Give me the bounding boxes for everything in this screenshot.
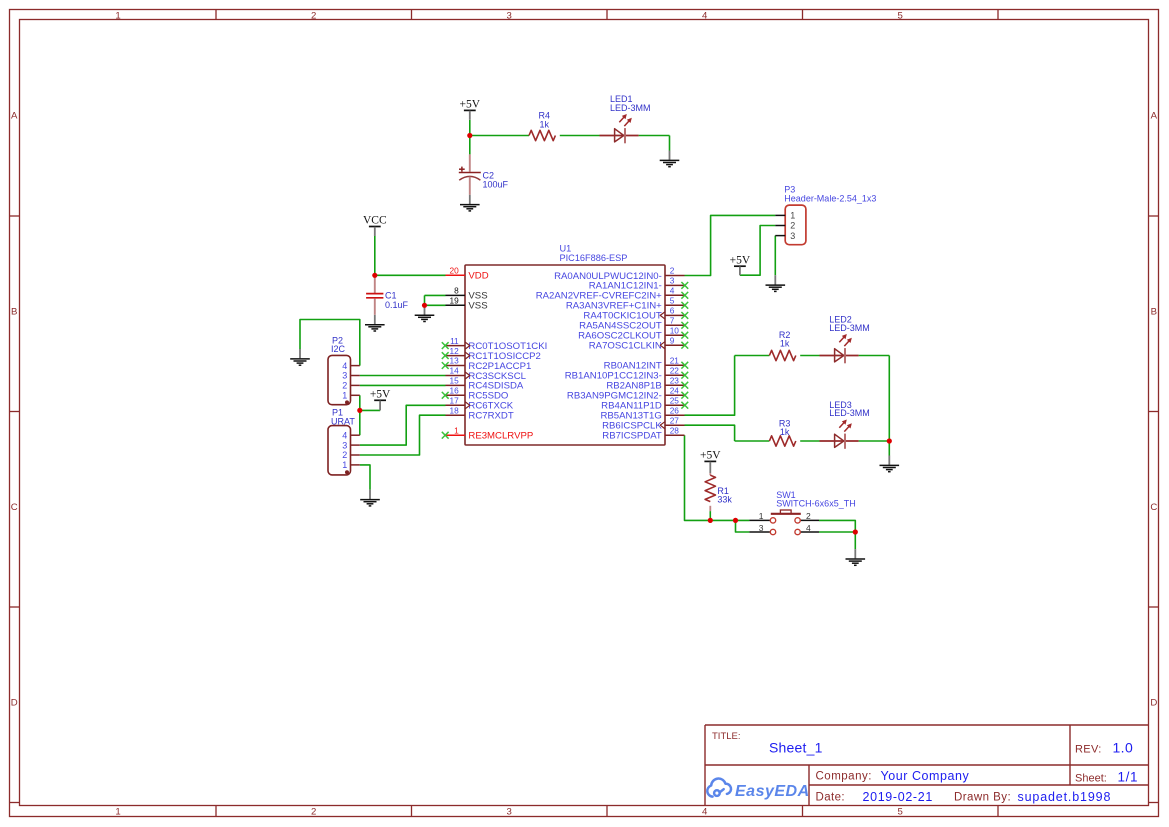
svg-text:4: 4 bbox=[670, 286, 675, 296]
svg-text:B: B bbox=[11, 306, 17, 317]
svg-text:VCC: VCC bbox=[363, 215, 387, 227]
svg-text:2: 2 bbox=[342, 381, 347, 391]
svg-text:25: 25 bbox=[670, 395, 680, 405]
svg-text:2: 2 bbox=[790, 221, 795, 231]
svg-text:14: 14 bbox=[449, 366, 459, 376]
svg-text:PIC16F886-ESP: PIC16F886-ESP bbox=[560, 253, 628, 263]
svg-text:Header-Male-2.54_1x3: Header-Male-2.54_1x3 bbox=[784, 194, 876, 204]
svg-text:+5V: +5V bbox=[700, 450, 721, 462]
svg-text:3: 3 bbox=[342, 440, 347, 450]
svg-text:I2C: I2C bbox=[331, 344, 346, 354]
svg-text:21: 21 bbox=[670, 355, 680, 365]
svg-text:22: 22 bbox=[670, 365, 680, 375]
svg-text:100uF: 100uF bbox=[483, 179, 509, 189]
svg-text:D: D bbox=[11, 697, 18, 708]
svg-text:6: 6 bbox=[670, 306, 675, 316]
svg-text:4: 4 bbox=[342, 361, 347, 371]
svg-text:Sheet:: Sheet: bbox=[1075, 773, 1107, 785]
svg-text:0.1uF: 0.1uF bbox=[385, 300, 409, 310]
svg-text:Drawn By:: Drawn By: bbox=[954, 792, 1011, 804]
svg-text:1: 1 bbox=[342, 391, 347, 401]
svg-text:2: 2 bbox=[806, 511, 811, 521]
svg-text:+5V: +5V bbox=[460, 99, 481, 111]
svg-text:VDD: VDD bbox=[468, 271, 488, 282]
svg-text:Date:: Date: bbox=[816, 792, 846, 804]
svg-text:EasyEDA: EasyEDA bbox=[735, 783, 810, 800]
svg-text:15: 15 bbox=[449, 376, 459, 386]
svg-text:28: 28 bbox=[670, 425, 680, 435]
svg-text:1: 1 bbox=[454, 425, 459, 435]
svg-text:RB7ICSPDAT: RB7ICSPDAT bbox=[602, 431, 662, 442]
svg-text:1k: 1k bbox=[780, 427, 790, 437]
svg-text:5: 5 bbox=[670, 296, 675, 306]
svg-text:1: 1 bbox=[342, 460, 347, 470]
svg-text:1/1: 1/1 bbox=[1118, 770, 1139, 785]
svg-text:C: C bbox=[1150, 502, 1157, 513]
svg-text:18: 18 bbox=[449, 405, 459, 415]
svg-text:11: 11 bbox=[450, 336, 459, 346]
svg-text:19: 19 bbox=[449, 296, 459, 306]
svg-text:supadet.b1998: supadet.b1998 bbox=[1018, 790, 1112, 804]
svg-text:3: 3 bbox=[670, 276, 675, 286]
svg-text:3: 3 bbox=[790, 231, 795, 241]
svg-text:RE3MCLRVPP: RE3MCLRVPP bbox=[468, 431, 533, 442]
svg-text:A: A bbox=[11, 111, 18, 122]
svg-text:+5V: +5V bbox=[730, 254, 751, 266]
svg-text:1: 1 bbox=[790, 211, 795, 221]
svg-text:SWITCH-6x6x5_TH: SWITCH-6x6x5_TH bbox=[776, 499, 856, 509]
svg-text:4: 4 bbox=[342, 430, 347, 440]
svg-text:27: 27 bbox=[670, 415, 680, 425]
svg-text:12: 12 bbox=[449, 346, 459, 356]
svg-text:3: 3 bbox=[759, 523, 764, 533]
svg-text:3: 3 bbox=[507, 10, 512, 21]
svg-text:2: 2 bbox=[311, 10, 316, 21]
svg-text:LED-3MM: LED-3MM bbox=[610, 103, 651, 113]
svg-text:26: 26 bbox=[670, 405, 680, 415]
svg-text:2: 2 bbox=[342, 450, 347, 460]
svg-text:5: 5 bbox=[898, 10, 903, 21]
svg-text:A: A bbox=[1151, 111, 1158, 122]
svg-text:LED-3MM: LED-3MM bbox=[829, 408, 870, 418]
svg-text:REV:: REV: bbox=[1075, 744, 1102, 756]
svg-text:23: 23 bbox=[670, 375, 680, 385]
svg-text:1: 1 bbox=[759, 511, 764, 521]
svg-text:17: 17 bbox=[449, 396, 459, 406]
svg-text:+5V: +5V bbox=[370, 389, 391, 401]
svg-text:URAT: URAT bbox=[331, 416, 355, 426]
svg-text:4: 4 bbox=[702, 807, 708, 818]
svg-text:1k: 1k bbox=[780, 339, 790, 349]
svg-text:24: 24 bbox=[670, 385, 680, 395]
svg-text:TITLE:: TITLE: bbox=[712, 731, 741, 742]
svg-text:3: 3 bbox=[342, 371, 347, 381]
svg-text:Your Company: Your Company bbox=[881, 769, 970, 783]
svg-text:1.0: 1.0 bbox=[1113, 740, 1134, 756]
svg-text:1k: 1k bbox=[540, 120, 550, 130]
svg-text:4: 4 bbox=[806, 523, 811, 533]
svg-text:VSS: VSS bbox=[468, 301, 487, 312]
svg-text:1: 1 bbox=[115, 807, 120, 818]
svg-text:1: 1 bbox=[115, 10, 120, 21]
svg-text:B: B bbox=[1151, 306, 1157, 317]
svg-text:4: 4 bbox=[702, 10, 708, 21]
svg-text:2: 2 bbox=[311, 807, 316, 818]
svg-text:Company:: Company: bbox=[816, 771, 872, 783]
svg-text:2019-02-21: 2019-02-21 bbox=[863, 790, 933, 804]
svg-text:2: 2 bbox=[670, 266, 675, 276]
svg-text:C1: C1 bbox=[385, 291, 397, 301]
svg-text:20: 20 bbox=[449, 266, 459, 276]
svg-text:13: 13 bbox=[449, 356, 459, 366]
svg-text:U1: U1 bbox=[560, 244, 572, 254]
svg-text:Sheet_1: Sheet_1 bbox=[769, 739, 823, 755]
svg-text:33k: 33k bbox=[717, 495, 732, 505]
svg-text:8: 8 bbox=[454, 286, 459, 296]
svg-text:RC7RXDT: RC7RXDT bbox=[468, 411, 513, 422]
svg-text:C: C bbox=[11, 502, 18, 513]
svg-text:3: 3 bbox=[507, 807, 512, 818]
svg-text:D: D bbox=[1150, 697, 1157, 708]
svg-text:LED-3MM: LED-3MM bbox=[829, 323, 870, 333]
svg-text:9: 9 bbox=[670, 335, 675, 345]
svg-text:16: 16 bbox=[449, 386, 459, 396]
svg-text:7: 7 bbox=[670, 316, 675, 326]
svg-text:10: 10 bbox=[670, 325, 680, 335]
svg-text:RA7OSC1CLKIN: RA7OSC1CLKIN bbox=[589, 341, 662, 352]
svg-text:5: 5 bbox=[898, 807, 903, 818]
